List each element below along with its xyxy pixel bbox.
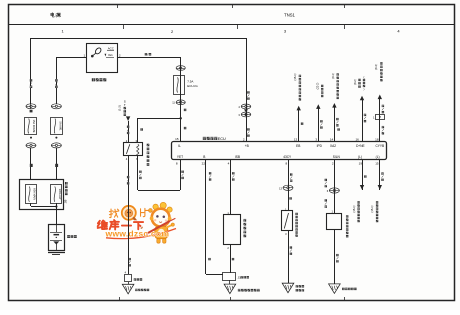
svg-text:D+NE: D+NE: [356, 144, 365, 148]
svg-text:43CY: 43CY: [283, 155, 292, 159]
svg-text:(8-4): (8-4): [375, 64, 378, 69]
svg-text:www.dzsc.com: www.dzsc.com: [105, 229, 170, 239]
svg-text:ACC: ACC: [108, 47, 114, 51]
svg-text:13: 13: [294, 138, 298, 142]
svg-text:100A ALT: 100A ALT: [58, 189, 62, 200]
svg-text:(22-2): (22-2): [317, 82, 320, 89]
svg-text:J/B: J/B: [63, 199, 67, 203]
svg-text:IL: IL: [178, 144, 181, 148]
svg-text:7.5A: 7.5A: [187, 79, 193, 83]
svg-text:ECU: ECU: [218, 137, 226, 141]
svg-text:14: 14: [330, 138, 334, 142]
svg-text:19: 19: [359, 162, 363, 166]
svg-text:15: 15: [175, 137, 179, 141]
svg-text:15A DOME: 15A DOME: [32, 120, 36, 133]
svg-text:+B: +B: [245, 144, 249, 148]
svg-text:EB: EB: [296, 144, 300, 148]
svg-text:(8-2): (8-2): [354, 79, 357, 84]
svg-text:5A AM1: 5A AM1: [58, 122, 62, 131]
svg-text:(1B-1): (1B-1): [371, 205, 374, 212]
svg-text:B: B: [203, 155, 205, 159]
svg-text:18: 18: [375, 138, 379, 142]
svg-text:IG1: IG1: [108, 53, 113, 57]
svg-text:/: /: [147, 52, 148, 56]
svg-text:(1-2): (1-2): [117, 105, 121, 111]
svg-text:(8-1): (8-1): [332, 73, 335, 78]
svg-text:(L): (L): [376, 155, 380, 159]
svg-text:(1B-1): (1B-1): [353, 205, 356, 212]
svg-text:15: 15: [375, 162, 379, 166]
svg-text:ISB: ISB: [235, 155, 240, 159]
svg-text:T: T: [124, 103, 126, 107]
svg-text:XA2: XA2: [330, 144, 336, 148]
svg-text:16: 16: [355, 138, 359, 142]
svg-text:CYYB: CYYB: [375, 144, 384, 148]
svg-text:22: 22: [202, 162, 206, 166]
svg-text:60A MAIN: 60A MAIN: [32, 188, 36, 200]
svg-text:YET: YET: [177, 155, 183, 159]
svg-text:ECU-IG: ECU-IG: [187, 84, 198, 88]
svg-text:): ): [364, 87, 365, 91]
svg-text:(: (: [364, 75, 365, 79]
svg-text:TNS1: TNS1: [284, 13, 295, 18]
svg-text:(L): (L): [358, 155, 362, 159]
svg-text:IPD: IPD: [317, 144, 323, 148]
svg-text:(1B-1): (1B-1): [294, 73, 297, 80]
svg-text:SILN: SILN: [333, 155, 341, 159]
